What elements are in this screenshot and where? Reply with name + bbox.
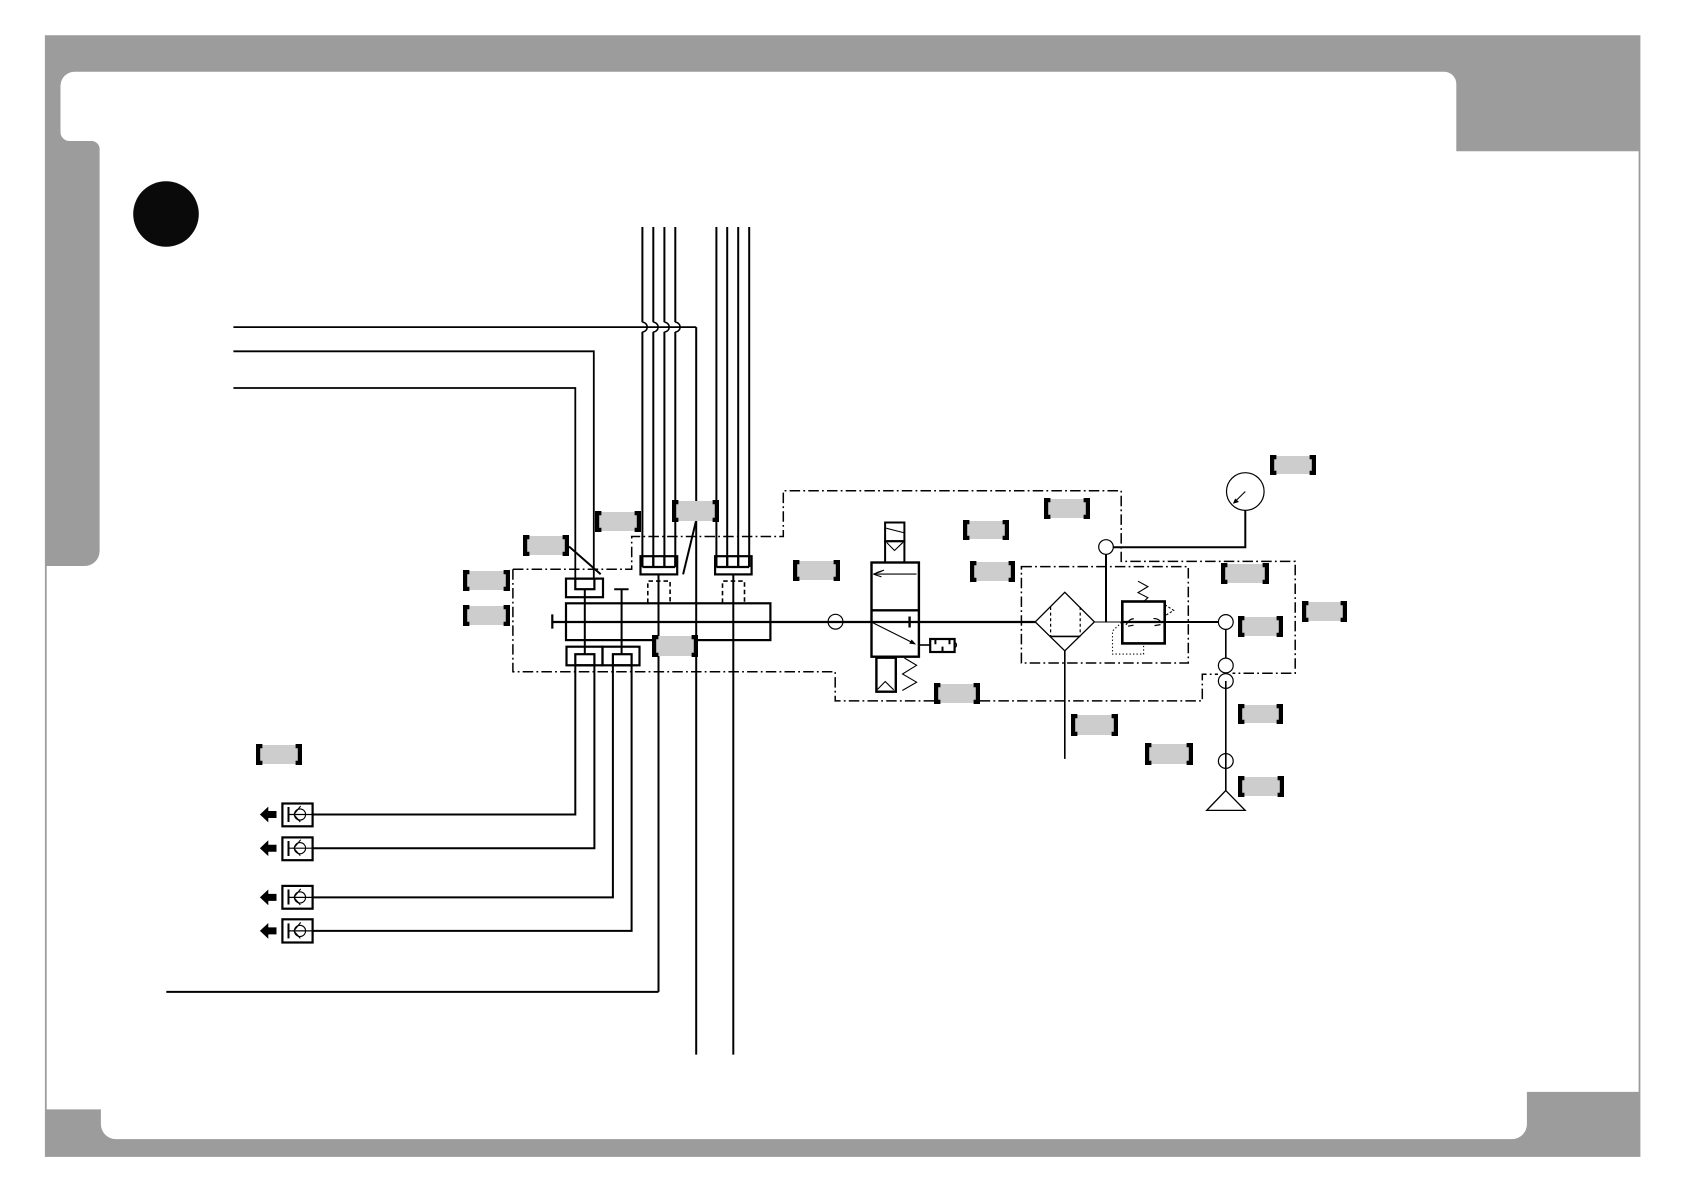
wire: solenoid armature stem x=584.8 — [584, 589, 586, 654]
wire: delivery line to check valve CV1 — [313, 665, 576, 814]
solenoid valve U1: pilot section with V — [885, 541, 904, 562]
arrow marker for CV1 — [260, 807, 277, 823]
regulator relief arrow (dotted V) — [1165, 605, 1174, 616]
wire: vertical x=696 full drop — [695, 327, 697, 1055]
wire: horizontal line 3 (y=388) corner to x=575 down to solenoid — [233, 388, 575, 579]
wire: valve to silencer — [919, 644, 930, 646]
label box L8 (redacted text) — [1046, 499, 1089, 518]
label box L13 (redacted text) — [1223, 564, 1268, 583]
solenoid valve U1: return spring — [902, 658, 916, 691]
wire: delivery line to check valve CV4 — [313, 665, 632, 931]
label box L15 (redacted text) — [1304, 602, 1346, 621]
wire: left bundle line B (x=653.3) with hop — [652, 227, 654, 567]
dashed port bracket left — [648, 581, 670, 603]
regulator pilot feedback (dotted) — [1113, 623, 1144, 655]
pressure gauge — [1227, 473, 1265, 511]
dash-dot enclosure: filter/regulator inner box — [1021, 567, 1188, 663]
wire: right bundle line H (x=749.2) — [748, 227, 750, 567]
label box L9 (redacted text) — [972, 562, 1014, 581]
wire: bottom rail y=992 — [166, 991, 658, 993]
node: circle B — [1218, 658, 1233, 673]
exhaust triangle (vent) — [1207, 791, 1246, 811]
wire: delivery line to check valve CV2 — [313, 665, 595, 848]
solenoid valve U1: exhaust chevron — [878, 682, 894, 690]
pilot solenoid (top) inner armature — [575, 579, 594, 590]
label box L6 (redacted text) — [795, 561, 839, 580]
node: branch circle to gauge — [1099, 540, 1114, 555]
wire: outlet line end circle A — [1218, 615, 1233, 630]
label box L14 (redacted text) — [1240, 617, 1282, 636]
label box L20 (redacted text) — [258, 745, 301, 764]
arrow marker for CV4 — [260, 923, 277, 939]
solenoid valve U1: body — [872, 563, 919, 657]
wire: left bundle line D (x=675.3) with hop — [674, 227, 676, 567]
node: T-bar stem x=621.6 — [614, 589, 628, 654]
check valve CV1 — [282, 804, 312, 827]
gauge needle — [1235, 492, 1245, 502]
label box L1 (redacted text) — [597, 512, 640, 531]
leader line from label L2 to left port block — [683, 522, 696, 575]
wire: right bundle line F (x=727.2) — [726, 227, 728, 567]
wire: delivery line to check valve CV3 — [313, 665, 613, 897]
wire: horizontal line 1 (y=327) to vertical x=696 — [233, 326, 696, 328]
pilot solenoid (top) outer body — [566, 579, 603, 598]
solenoid valve U1: section divider — [872, 609, 919, 611]
wire: left bundle line A (x=642.4) with hop — [641, 227, 643, 567]
label box L18 (redacted text) — [1147, 744, 1192, 764]
dashed port bracket right — [723, 581, 745, 603]
label box L3 (redacted text) — [525, 536, 568, 555]
node: inlet circle before valve — [828, 614, 843, 629]
wire: regulator mid line — [1122, 621, 1164, 623]
wire: gauge line — [1113, 510, 1245, 547]
node: circle C — [1218, 674, 1233, 689]
wire: right bundle line G (x=738.2) — [737, 227, 739, 567]
bottom solenoid 1 inner armature — [575, 654, 594, 665]
node: circle D — [1218, 754, 1233, 769]
regulator internal flow arcs — [1126, 619, 1134, 626]
filter element dashed lines — [1051, 607, 1081, 636]
wire: thin segment dryer to regulator — [1094, 621, 1122, 623]
arrow marker for CV3 — [260, 890, 277, 906]
leader line from label L3 to pilot solenoid — [569, 547, 601, 575]
wire: horizontal line 2 (y=351) corner to x=594 down to solenoid — [233, 351, 593, 578]
pressure regulator body — [1122, 602, 1164, 644]
silencer / restrictor — [930, 639, 954, 652]
label box L19 (redacted text) — [1240, 777, 1283, 796]
solenoid valve U1: bottom diagonal flow arrow — [872, 622, 913, 642]
check valve CV4 — [282, 919, 312, 942]
label box L16 (redacted text) — [1240, 705, 1282, 723]
wire: drop from circle A to circle stack — [1225, 629, 1227, 658]
solenoid valve U1: top section arrow — [874, 573, 917, 575]
solenoid valve U1: coil diagonal — [886, 528, 903, 532]
regulator spring — [1138, 581, 1148, 601]
label box L11 (redacted text) — [936, 684, 979, 703]
manifold block — [566, 603, 770, 640]
wire: right port stem x=733.3 — [732, 574, 734, 1054]
right port block outer — [715, 556, 752, 574]
solenoid valve U1: coil box — [885, 523, 904, 542]
label box L5 (redacted text) — [465, 606, 509, 625]
bottom solenoid 2 inner armature — [613, 654, 632, 665]
label box L2 (redacted text) — [674, 501, 718, 521]
left port block outer — [641, 556, 678, 574]
solenoid valve U1: exhaust box — [876, 658, 895, 692]
air dryer filter diamond — [1035, 592, 1094, 651]
wire: drop from circle C through circle D to vent — [1225, 681, 1227, 791]
bottom solenoid 1 outer body — [567, 647, 603, 666]
wire: right bundle line E (x=716.4) — [715, 227, 717, 567]
wire: main pressure line y=622 with left end tick — [552, 614, 1035, 628]
right port block inner cells — [716, 556, 749, 567]
label box L4 (redacted text) — [465, 571, 509, 590]
wire: left bundle line C (x=664.4) with hop — [663, 227, 665, 567]
label box L12 (redacted text) — [1272, 456, 1315, 474]
black circle marker — [133, 181, 199, 247]
check valve CV3 — [282, 886, 312, 909]
wire: left port stem x=658.5 down to bottom rail — [658, 574, 660, 992]
wire: regulator outlet segment — [1165, 621, 1219, 623]
wire: dryer drain line — [1064, 651, 1066, 759]
label box L7 (redacted text) — [965, 521, 1008, 539]
dash-dot enclosure: manifold assembly boundary — [513, 491, 1295, 701]
bottom solenoid 2 outer body — [603, 647, 640, 666]
arrow marker for CV2 — [260, 840, 277, 856]
label box L10 (redacted text) — [654, 636, 697, 656]
check valve CV2 — [282, 837, 312, 860]
solenoid valve U1: blocked port T — [908, 617, 910, 628]
label box L17 (redacted text) — [1073, 715, 1117, 735]
wire: branch riser to gauge circle — [1105, 554, 1107, 622]
left port block inner cells — [642, 556, 675, 567]
